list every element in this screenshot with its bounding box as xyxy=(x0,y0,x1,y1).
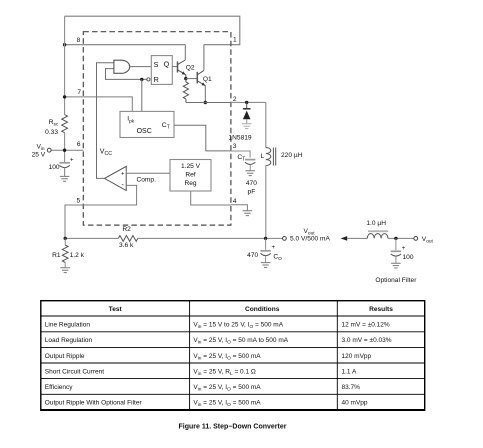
arrow: filter feed arrow xyxy=(341,236,368,241)
node: junction dot diode on pin 2 xyxy=(245,101,248,104)
svg-text:Results: Results xyxy=(369,306,393,313)
svg-text:0.33: 0.33 xyxy=(45,129,58,136)
ground: below input cap xyxy=(60,176,70,181)
svg-text:R: R xyxy=(154,75,159,84)
svg-text:Line Regulation: Line Regulation xyxy=(45,321,91,328)
svg-text:1.0 µH: 1.0 µH xyxy=(366,220,386,227)
ground: below R1 xyxy=(60,268,70,273)
svg-text:R1: R1 xyxy=(52,252,61,259)
svg-text:CT: CT xyxy=(237,154,245,163)
wire: Q2 emitter to Q1 base xyxy=(186,78,198,80)
node: junction dot Vin rail xyxy=(63,149,66,152)
wire: AND output to S input xyxy=(130,66,152,68)
svg-text:1: 1 xyxy=(233,36,237,43)
label Comp. xyxy=(137,176,157,183)
svg-text:470: 470 xyxy=(246,180,257,187)
wire: output feedback line xyxy=(65,237,283,239)
svg-text:Q: Q xyxy=(164,60,170,69)
node: junction dot filter cap xyxy=(394,237,397,240)
terminal: Vout filtered xyxy=(414,236,434,245)
svg-text:+: + xyxy=(70,157,74,164)
wire: Ref Reg ground to pin 4 xyxy=(191,191,231,205)
svg-text:8: 8 xyxy=(77,37,81,44)
capacitor: 100 uF input cap xyxy=(49,157,74,177)
svg-text:Output Ripple With Optional Fi: Output Ripple With Optional Filter xyxy=(45,400,143,407)
svg-text:Short Circuit Current: Short Circuit Current xyxy=(45,368,104,375)
wire: outer top loop from Vin rail to pin 1 xyxy=(65,16,240,45)
wire: pin 8 to Q2 collector xyxy=(65,44,186,46)
terminal: Vin input xyxy=(32,144,84,159)
resistor R1 xyxy=(52,238,84,267)
svg-text:Output Ripple: Output Ripple xyxy=(45,353,85,360)
label VCC xyxy=(100,148,112,157)
svg-text:5: 5 xyxy=(77,197,81,204)
wire: comparator output up to AND gate input xyxy=(97,63,114,179)
node: junction dot pin 8 on rail xyxy=(63,43,66,46)
table row 3: Output Ripple xyxy=(45,353,372,362)
svg-text:L: L xyxy=(261,153,265,160)
svg-text:Reg: Reg xyxy=(184,180,196,187)
wire: OSC CT output to pin 3 xyxy=(174,125,231,151)
wire: pin 2 line inside IC xyxy=(186,102,231,104)
svg-text:83.7%: 83.7% xyxy=(342,384,361,391)
capacitor CT 470 pF xyxy=(237,154,257,196)
node: junction dot Q1 emitter on pin 2 line xyxy=(204,101,207,104)
svg-text:7: 7 xyxy=(77,89,81,96)
svg-text:120 mVpp: 120 mVpp xyxy=(342,353,372,360)
label Optional Filter xyxy=(375,277,417,284)
wire: pin 2 external to inductor rail xyxy=(231,101,266,103)
svg-text:470: 470 xyxy=(247,252,258,259)
wire: pin 7 to OSC Ipk input xyxy=(65,97,133,112)
node: junction dot pin 7 on rail xyxy=(63,95,66,98)
svg-text:VCC: VCC xyxy=(100,148,112,157)
svg-text:Vout: Vout xyxy=(422,236,434,245)
svg-text:220 µH: 220 µH xyxy=(281,152,303,159)
wire: latch Q output to Q2 base xyxy=(172,66,177,68)
svg-text:Conditions: Conditions xyxy=(245,306,280,313)
table header row xyxy=(109,306,394,313)
inductor L 220 uH xyxy=(261,102,303,238)
svg-text:1.1 A: 1.1 A xyxy=(342,368,357,375)
svg-text:+: + xyxy=(402,245,406,252)
table row 5: Efficiency xyxy=(45,384,360,393)
wire: comparator + input to Ref Reg xyxy=(126,172,170,174)
svg-text:1.25 V: 1.25 V xyxy=(181,163,201,170)
table row 4: Short Circuit Current xyxy=(45,368,357,377)
pin 2 label xyxy=(233,96,237,103)
pin 7 label xyxy=(77,89,81,96)
svg-text:3.6 k: 3.6 k xyxy=(119,242,134,249)
svg-text:Efficiency: Efficiency xyxy=(45,384,73,391)
svg-text:5.0 V/500 mA: 5.0 V/500 mA xyxy=(290,236,331,243)
svg-text:+: + xyxy=(271,244,275,251)
svg-text:3: 3 xyxy=(233,143,237,150)
resistor Rsc xyxy=(45,115,67,136)
wire: pin 3 external to CT cap xyxy=(231,151,250,158)
svg-text:Ref: Ref xyxy=(185,172,195,179)
transistor Q2 xyxy=(178,45,195,79)
svg-text:4: 4 xyxy=(233,198,237,205)
svg-text:12 mV = ±0.12%: 12 mV = ±0.12% xyxy=(342,321,390,328)
wire: left Vin rail lower below Rsc xyxy=(64,133,66,163)
ground: below diode (grey) xyxy=(242,124,252,129)
ground: below CT cap xyxy=(245,171,255,176)
op-amp comparator xyxy=(105,166,127,190)
pin 4 label xyxy=(233,198,237,205)
pin 1 label xyxy=(233,36,237,43)
latch U latch box xyxy=(151,56,172,85)
pin 3 label xyxy=(233,143,237,150)
ground: below Co xyxy=(261,263,271,268)
svg-text:Vin = 25 V, IO = 50 mA to 500: Vin = 25 V, IO = 50 mA to 500 mA xyxy=(193,337,288,346)
svg-text:Vin = 25 V, IO = 500 mA: Vin = 25 V, IO = 500 mA xyxy=(193,353,261,362)
wire: AND gate lower input to oscillator line xyxy=(106,69,147,80)
transistor Q1 xyxy=(197,45,212,103)
svg-text:3.0 mV = ±0.03%: 3.0 mV = ±0.03% xyxy=(342,337,392,344)
svg-text:Vin = 25 V, IO = 500 mA: Vin = 25 V, IO = 500 mA xyxy=(193,384,261,393)
table row 1: Line Regulation xyxy=(45,321,390,330)
svg-text:Load Regulation: Load Regulation xyxy=(45,337,93,344)
svg-text:6: 6 xyxy=(77,141,81,148)
terminal: Vout 5.0V output xyxy=(283,228,331,243)
caption: Figure 11 xyxy=(179,424,287,431)
block: OSC / Ipk box xyxy=(120,111,174,137)
node: junction dot output xyxy=(264,237,267,240)
svg-text:Test: Test xyxy=(109,306,123,313)
svg-text:100: 100 xyxy=(49,164,60,171)
latch R input bubble xyxy=(147,78,150,81)
node: junction dot oscillator line xyxy=(140,78,143,81)
svg-text:R2: R2 xyxy=(122,226,131,233)
svg-text:100: 100 xyxy=(403,254,414,261)
wire: oscillator line down to OSC box xyxy=(141,79,143,111)
table row 2: Load Regulation xyxy=(45,337,392,346)
svg-text:S: S xyxy=(154,60,159,69)
inductor: optional filter 1.0 uH xyxy=(366,220,388,239)
svg-text:pF: pF xyxy=(248,189,256,196)
svg-text:40 mVpp: 40 mVpp xyxy=(342,400,368,407)
ground: below filter cap xyxy=(391,263,401,268)
wire: left Vin rail upper xyxy=(64,16,66,114)
svg-text:Comp.: Comp. xyxy=(137,176,157,183)
AND gate xyxy=(114,60,130,73)
svg-text:1.2 k: 1.2 k xyxy=(70,252,85,259)
svg-text:OSC: OSC xyxy=(137,128,152,135)
pin 5 label xyxy=(77,197,81,204)
capacitor: optional filter 100 uF xyxy=(391,238,414,263)
dashed IC boundary box xyxy=(83,32,231,225)
svg-text:Optional Filter: Optional Filter xyxy=(375,277,417,284)
node: junction dot Q2 emitter / Q1 base xyxy=(184,77,187,80)
node: junction dot R1/R2 xyxy=(63,237,66,240)
svg-text:Q2: Q2 xyxy=(186,64,195,71)
svg-text:Rsc: Rsc xyxy=(49,119,59,128)
resistor: Q1 base-emitter resistor xyxy=(183,79,188,103)
ground: pin 4 xyxy=(243,211,253,216)
resistor R2 xyxy=(118,226,137,249)
table: results table frame xyxy=(41,301,425,411)
table row 6: Output Ripple With Optional Filter xyxy=(45,400,368,409)
block: 1.25 V Ref Reg box xyxy=(170,160,211,192)
svg-text:Vin = 25 V, IO = 500 mA: Vin = 25 V, IO = 500 mA xyxy=(193,400,261,409)
svg-text:1N5819: 1N5819 xyxy=(229,134,252,141)
svg-text:+: + xyxy=(121,171,125,177)
svg-text:25 V: 25 V xyxy=(32,151,46,158)
svg-text:Figure 11. Step−Down Converter: Figure 11. Step−Down Converter xyxy=(179,424,287,431)
svg-text:CO: CO xyxy=(273,254,282,263)
svg-text:Q1: Q1 xyxy=(203,76,212,83)
svg-text:Vin = 25 V, RL = 0.1 Ω: Vin = 25 V, RL = 0.1 Ω xyxy=(193,368,255,377)
capacitor Co 470 uF xyxy=(247,238,282,262)
wire: filter inductor to Vout terminal xyxy=(388,237,414,239)
wire: pin 4 external to ground xyxy=(231,205,248,211)
svg-text:Vin = 15 V to 25 V, IO = 500 m: Vin = 15 V to 25 V, IO = 500 mA xyxy=(193,321,283,330)
wire: comparator - input down to pin 5 and out to R1/R2 node xyxy=(65,185,137,238)
diode 1N5819 xyxy=(229,102,252,141)
pin 8 label xyxy=(77,37,81,44)
pin 6 label xyxy=(77,141,81,148)
